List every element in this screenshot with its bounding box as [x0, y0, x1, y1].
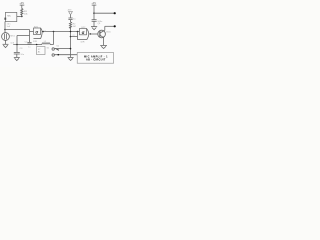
node switch wire	[70, 48, 72, 50]
svg-text:+9V: +9V	[91, 1, 96, 5]
capacitor C4	[68, 18, 76, 20]
resistor R2	[69, 22, 76, 28]
capacitor C3	[14, 52, 25, 56]
wire top contact right	[55, 48, 71, 50]
node on bottom wire	[57, 54, 59, 56]
ground (mic)	[3, 44, 9, 47]
ground (C3)	[14, 57, 20, 60]
node B	[53, 31, 55, 33]
node on wire above box	[36, 44, 38, 46]
transistor Q1	[98, 23, 112, 38]
output dot U1	[42, 31, 44, 33]
svg-text:MIC: MIC	[7, 16, 11, 18]
wire antenna down	[70, 15, 72, 18]
svg-text:32R: 32R	[33, 41, 37, 43]
wire down x17	[16, 36, 18, 45]
svg-text:σ: σ	[35, 30, 38, 35]
svg-text:+9V: +9V	[19, 1, 24, 5]
earpiece U1	[33, 27, 42, 43]
wire node A corner down	[29, 30, 31, 43]
svg-text:32R: 32R	[80, 42, 84, 44]
ground (antenna line)	[68, 57, 74, 60]
collector wire right	[105, 25, 115, 27]
small box B1	[37, 47, 46, 55]
output dot U2	[90, 33, 92, 35]
mic module box	[4, 12, 16, 21]
wire bottom contact right	[55, 54, 78, 56]
wire node to box2 return	[71, 36, 78, 38]
power rail +9V left	[19, 1, 24, 8]
wire node A right	[5, 29, 30, 31]
emitter lead	[103, 38, 105, 46]
wire rail down	[93, 13, 95, 20]
node A	[4, 29, 6, 31]
wire R1 to node	[21, 14, 23, 17]
antenna ANT	[68, 9, 73, 15]
signal wire	[43, 31, 79, 33]
svg-text:AB - CIRCUIT: AB - CIRCUIT	[86, 59, 106, 62]
ground (rail cap)	[91, 27, 97, 30]
wire to transistor base	[90, 33, 98, 35]
capacitor C5	[92, 20, 103, 23]
svg-text:MK1: MK1	[10, 36, 15, 38]
wire box bottom down	[4, 22, 6, 30]
wire mic to ground	[5, 40, 7, 44]
wire resistor down to ground	[70, 27, 72, 57]
terminal dot top	[114, 12, 116, 14]
wire branch left at 35.5	[17, 35, 30, 37]
svg-text:100u: 100u	[97, 21, 103, 23]
svg-text:σ: σ	[82, 30, 85, 35]
svg-text:1M: 1M	[73, 26, 76, 28]
box2 bottom line	[78, 39, 87, 41]
wire rail right	[94, 12, 115, 14]
collector lead	[103, 26, 106, 30]
wire node B down	[53, 32, 55, 45]
earpiece U2	[80, 27, 89, 39]
capacitor C2	[25, 41, 32, 44]
terminal dot	[114, 25, 116, 27]
node rail	[93, 12, 95, 14]
node bottom-left	[16, 44, 18, 46]
wire down to C3	[16, 45, 18, 53]
power rail +9V right	[91, 1, 96, 13]
node antenna/signal	[70, 31, 72, 33]
bottom wire	[13, 44, 42, 46]
svg-text:1u: 1u	[28, 46, 30, 48]
switch lever	[55, 48, 59, 50]
node R1/mic junction	[21, 16, 23, 18]
switch S1 bottom contact	[52, 54, 54, 56]
wire node A to mic	[4, 30, 6, 33]
title box	[77, 53, 113, 64]
inductor L1	[42, 41, 50, 44]
wire into box U1	[30, 31, 34, 33]
node box2 return	[77, 31, 79, 33]
microphone MK1	[2, 33, 16, 41]
wire return down	[77, 32, 79, 40]
wire mic box to node	[17, 15, 22, 17]
switch S1 top contact	[52, 48, 54, 50]
ground (emitter)	[100, 45, 107, 48]
node at 36.5	[70, 36, 72, 38]
resistor R1	[21, 9, 29, 16]
